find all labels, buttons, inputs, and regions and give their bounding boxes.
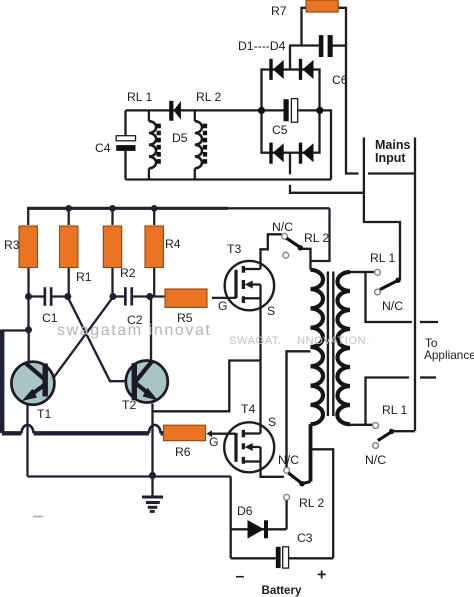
svg-text:R4: R4 <box>165 237 181 251</box>
svg-text:D1----D4: D1----D4 <box>238 39 286 53</box>
svg-text:R7: R7 <box>271 4 287 18</box>
svg-text:T4: T4 <box>241 402 255 416</box>
svg-text:–: – <box>236 568 245 585</box>
svg-text:R1: R1 <box>76 270 92 284</box>
svg-text:C5: C5 <box>272 123 288 137</box>
svg-text:NNOVATION.: NNOVATION. <box>297 335 370 347</box>
svg-text:RL 2: RL 2 <box>196 90 222 104</box>
svg-text:R2: R2 <box>120 266 136 280</box>
svg-text:Appliance: Appliance <box>424 348 474 362</box>
svg-text:Battery: Battery <box>262 584 303 597</box>
svg-text:+: + <box>317 567 326 584</box>
svg-text:T1: T1 <box>37 407 51 421</box>
svg-text:R6: R6 <box>175 445 191 459</box>
svg-text:C3: C3 <box>297 531 313 545</box>
svg-text:C1: C1 <box>42 311 58 325</box>
svg-text:N/C: N/C <box>365 453 386 467</box>
svg-text:C4: C4 <box>95 141 111 155</box>
svg-text:S: S <box>267 304 275 318</box>
svg-text:G: G <box>209 435 218 449</box>
svg-text:Input: Input <box>375 151 406 165</box>
svg-text:RL 2: RL 2 <box>304 231 330 245</box>
svg-text:N/C: N/C <box>272 220 293 234</box>
svg-text:D6: D6 <box>237 504 253 518</box>
svg-text:N/C: N/C <box>382 299 403 313</box>
svg-text:D5: D5 <box>172 131 188 145</box>
svg-text:N/C: N/C <box>278 453 299 467</box>
svg-text:C6: C6 <box>332 73 348 87</box>
svg-text:R3: R3 <box>4 238 20 252</box>
svg-text:RL 2: RL 2 <box>299 496 325 510</box>
svg-text:swagatam innovat: swagatam innovat <box>57 322 212 339</box>
svg-text:RL 1: RL 1 <box>127 90 153 104</box>
svg-text:RL 1: RL 1 <box>370 251 396 265</box>
svg-text:SWAGAT.: SWAGAT. <box>229 335 281 347</box>
svg-text:T3: T3 <box>227 242 241 256</box>
svg-text:T2: T2 <box>122 398 136 412</box>
svg-text:Mains: Mains <box>375 138 410 152</box>
svg-text:S: S <box>268 415 276 429</box>
svg-text:RL 1: RL 1 <box>382 403 408 417</box>
svg-text:G: G <box>218 299 227 313</box>
